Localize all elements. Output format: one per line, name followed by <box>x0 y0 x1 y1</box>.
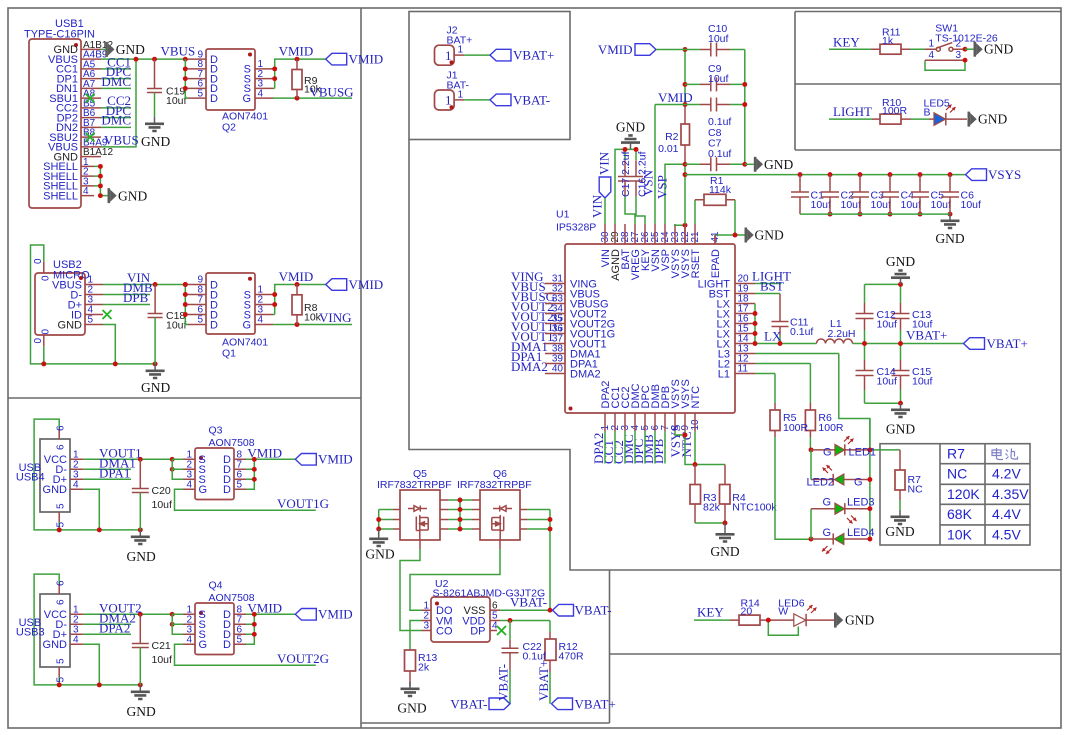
svg-text:VOUT2G: VOUT2G <box>277 651 329 666</box>
svg-text:1: 1 <box>928 39 934 50</box>
svg-text:0: 0 <box>33 258 44 264</box>
svg-text:5: 5 <box>237 480 243 491</box>
svg-text:VMID: VMID <box>318 452 353 467</box>
svg-text:10uf: 10uf <box>871 199 892 211</box>
svg-text:VOUT1G: VOUT1G <box>277 496 329 511</box>
svg-text:10uf: 10uf <box>811 199 832 211</box>
svg-text:G: G <box>199 639 208 651</box>
svg-text:6: 6 <box>56 425 67 431</box>
svg-text:USB4: USB4 <box>16 472 45 484</box>
svg-text:IRF7832TRPBF: IRF7832TRPBF <box>377 479 452 491</box>
svg-text:GND: GND <box>886 254 915 269</box>
svg-text:GND: GND <box>935 231 964 246</box>
svg-text:GND: GND <box>616 120 645 135</box>
svg-text:NC: NC <box>908 484 924 496</box>
svg-text:4.5V: 4.5V <box>992 527 1021 543</box>
svg-text:120K: 120K <box>947 486 980 502</box>
svg-text:68K: 68K <box>947 506 973 522</box>
svg-text:5: 5 <box>56 677 67 683</box>
svg-text:VMID: VMID <box>598 42 633 57</box>
svg-text:10uf: 10uf <box>841 199 862 211</box>
svg-text:4: 4 <box>186 635 192 646</box>
svg-text:DMC: DMC <box>101 74 131 89</box>
svg-text:W: W <box>778 606 788 618</box>
svg-text:Q3: Q3 <box>209 425 223 437</box>
svg-text:BAT-: BAT- <box>447 79 470 91</box>
svg-text:10uf: 10uf <box>708 33 729 45</box>
svg-text:VBUSG: VBUSG <box>310 85 354 100</box>
svg-text:USB3: USB3 <box>16 627 45 639</box>
svg-text:LIGHT: LIGHT <box>833 104 872 119</box>
svg-text:D: D <box>210 93 218 105</box>
svg-text:5: 5 <box>197 315 203 326</box>
svg-text:G: G <box>854 476 863 488</box>
svg-text:GND: GND <box>710 544 739 559</box>
svg-text:4: 4 <box>73 635 79 646</box>
svg-text:DPB: DPB <box>123 290 149 305</box>
svg-text:1k: 1k <box>882 35 894 47</box>
svg-text:10uf: 10uf <box>166 95 187 107</box>
svg-text:4: 4 <box>258 315 264 326</box>
svg-text:KEY: KEY <box>697 605 724 620</box>
svg-text:VBAT-: VBAT- <box>496 664 511 701</box>
svg-text:114k: 114k <box>709 184 732 196</box>
svg-text:4: 4 <box>83 186 89 197</box>
svg-text:G: G <box>823 527 832 539</box>
svg-text:2k: 2k <box>418 662 430 674</box>
svg-text:4.35V: 4.35V <box>992 486 1029 502</box>
svg-text:NC: NC <box>947 466 967 482</box>
svg-text:10uf: 10uf <box>912 376 933 388</box>
svg-text:IP5328P: IP5328P <box>556 222 596 234</box>
svg-text:VBAT+: VBAT+ <box>575 696 616 711</box>
svg-text:GND: GND <box>397 701 426 716</box>
svg-text:100R: 100R <box>882 105 908 117</box>
svg-text:GND: GND <box>764 157 793 172</box>
svg-text:2: 2 <box>956 39 962 50</box>
svg-text:GND: GND <box>141 380 170 395</box>
svg-text:470R: 470R <box>559 651 585 663</box>
svg-text:GND: GND <box>118 188 147 203</box>
svg-text:C20: C20 <box>152 485 171 497</box>
svg-text:NTC100k: NTC100k <box>732 502 777 514</box>
svg-text:2.2uH: 2.2uH <box>828 328 856 340</box>
svg-text:VSYS: VSYS <box>988 167 1021 182</box>
svg-text:5: 5 <box>197 88 203 99</box>
svg-text:10uf: 10uf <box>877 376 898 388</box>
svg-text:4: 4 <box>186 480 192 491</box>
svg-text:D: D <box>210 319 218 331</box>
svg-text:EPAD: EPAD <box>710 249 722 278</box>
svg-text:BAT+: BAT+ <box>447 35 473 47</box>
svg-text:6: 6 <box>56 444 67 450</box>
svg-text:D: D <box>223 639 231 651</box>
svg-text:0.1uf: 0.1uf <box>523 651 546 663</box>
svg-text:C17 2.2uf: C17 2.2uf <box>620 151 632 197</box>
svg-text:U1: U1 <box>556 209 570 221</box>
svg-text:10uf: 10uf <box>901 199 922 211</box>
svg-text:0.1uf: 0.1uf <box>790 326 813 338</box>
svg-text:GND: GND <box>43 484 68 496</box>
svg-text:D: D <box>223 484 231 496</box>
svg-text:R2: R2 <box>665 131 679 143</box>
svg-text:GND: GND <box>885 524 914 539</box>
svg-text:SHELL: SHELL <box>43 190 78 202</box>
svg-text:LED4: LED4 <box>847 527 875 539</box>
svg-text:RSET: RSET <box>690 249 702 279</box>
svg-text:4.4V: 4.4V <box>992 506 1021 522</box>
svg-text:GND: GND <box>978 112 1007 127</box>
svg-text:0: 0 <box>33 338 44 344</box>
svg-text:0: 0 <box>41 329 52 335</box>
svg-text:GND: GND <box>365 547 394 562</box>
svg-text:GND: GND <box>755 228 784 243</box>
svg-text:6: 6 <box>56 599 67 605</box>
svg-text:5: 5 <box>237 635 243 646</box>
svg-text:NTC: NTC <box>690 386 702 409</box>
svg-text:5: 5 <box>56 503 67 509</box>
svg-text:G: G <box>199 484 208 496</box>
svg-text:LED1: LED1 <box>849 447 877 459</box>
svg-text:GND: GND <box>845 613 874 628</box>
svg-text:5: 5 <box>56 658 67 664</box>
svg-text:C21: C21 <box>152 640 171 652</box>
svg-text:TS-1012E-26: TS-1012E-26 <box>935 33 998 45</box>
svg-text:10uf: 10uf <box>152 499 173 511</box>
svg-text:DMA2: DMA2 <box>570 368 601 380</box>
svg-text:Q2: Q2 <box>222 122 236 134</box>
svg-text:3: 3 <box>423 621 429 632</box>
svg-text:VMID: VMID <box>658 90 693 105</box>
svg-text:VING: VING <box>319 310 352 325</box>
svg-text:GND: GND <box>43 639 68 651</box>
svg-text:VBAT-: VBAT- <box>450 696 487 711</box>
svg-text:4: 4 <box>258 88 264 99</box>
svg-text:GND: GND <box>127 704 156 719</box>
svg-text:10uf: 10uf <box>931 199 952 211</box>
svg-text:B: B <box>924 107 931 119</box>
svg-text:10uf: 10uf <box>708 73 729 85</box>
svg-text:1: 1 <box>445 48 452 63</box>
svg-text:VIN: VIN <box>597 151 612 175</box>
svg-text:LED2: LED2 <box>807 476 835 488</box>
svg-text:GND: GND <box>127 549 156 564</box>
svg-text:G: G <box>823 497 832 509</box>
svg-text:VBAT+: VBAT+ <box>513 48 554 63</box>
svg-text:GND: GND <box>886 422 915 437</box>
svg-text:VMID: VMID <box>318 607 353 622</box>
svg-text:VMID: VMID <box>349 277 384 292</box>
svg-text:DP: DP <box>470 626 485 638</box>
svg-text:Q4: Q4 <box>209 580 223 592</box>
svg-text:0: 0 <box>41 275 52 281</box>
svg-text:20: 20 <box>741 606 753 618</box>
svg-text:VBAT+: VBAT+ <box>536 660 551 701</box>
svg-text:DMA2: DMA2 <box>511 359 548 374</box>
svg-text:10uf: 10uf <box>877 319 898 331</box>
svg-text:G: G <box>242 93 251 105</box>
svg-text:VMID: VMID <box>279 44 314 59</box>
svg-text:100R: 100R <box>818 422 844 434</box>
svg-text:BST: BST <box>760 279 784 294</box>
svg-text:VBUS: VBUS <box>161 44 196 59</box>
svg-text:0.1uf: 0.1uf <box>708 116 731 128</box>
svg-text:TYPE-C16PIN: TYPE-C16PIN <box>24 29 95 41</box>
svg-text:10uf: 10uf <box>912 319 933 331</box>
svg-text:VBAT+: VBAT+ <box>987 336 1028 351</box>
svg-text:10uf: 10uf <box>961 199 982 211</box>
svg-text:L1: L1 <box>718 368 730 380</box>
svg-text:G: G <box>823 447 832 459</box>
svg-text:4: 4 <box>928 50 934 61</box>
svg-text:4.2V: 4.2V <box>992 466 1021 482</box>
svg-text:VBAT-: VBAT- <box>575 603 612 618</box>
svg-text:G: G <box>242 319 251 331</box>
svg-text:10K: 10K <box>947 527 973 543</box>
svg-text:DMC: DMC <box>101 113 131 128</box>
svg-text:LED3: LED3 <box>847 497 875 509</box>
svg-text:4: 4 <box>73 480 79 491</box>
svg-text:DPA2: DPA2 <box>99 621 130 636</box>
svg-text:VIN: VIN <box>590 194 605 218</box>
svg-text:VBUS: VBUS <box>104 132 139 147</box>
svg-text:82k: 82k <box>703 502 721 514</box>
svg-text:3: 3 <box>956 50 962 61</box>
svg-text:CO: CO <box>436 626 453 638</box>
svg-text:KEY: KEY <box>833 34 860 49</box>
svg-text:GND: GND <box>141 134 170 149</box>
svg-text:VSN: VSN <box>641 169 656 196</box>
svg-text:VMID: VMID <box>247 600 282 615</box>
svg-text:0.1uf: 0.1uf <box>708 148 731 160</box>
svg-text:5: 5 <box>56 522 67 528</box>
svg-text:100R: 100R <box>783 422 809 434</box>
svg-text:VMID: VMID <box>349 52 384 67</box>
svg-text:1: 1 <box>445 93 452 108</box>
svg-text:VBAT-: VBAT- <box>510 595 547 610</box>
svg-text:0.01: 0.01 <box>658 143 679 155</box>
svg-text:VSP: VSP <box>655 175 670 199</box>
svg-text:DPA1: DPA1 <box>99 466 130 481</box>
svg-text:R7: R7 <box>947 446 965 462</box>
svg-text:LX: LX <box>764 329 782 344</box>
svg-text:IRF7832TRPBF: IRF7832TRPBF <box>457 479 532 491</box>
svg-text:10uf: 10uf <box>152 654 173 666</box>
svg-text:VBAT-: VBAT- <box>513 92 550 107</box>
svg-text:10uf: 10uf <box>166 320 187 332</box>
svg-text:GND: GND <box>58 319 83 331</box>
svg-text:DPB: DPB <box>651 438 666 464</box>
svg-text:5: 5 <box>88 315 94 326</box>
svg-text:VMID: VMID <box>247 445 282 460</box>
svg-text:VMID: VMID <box>279 269 314 284</box>
svg-text:6: 6 <box>56 580 67 586</box>
svg-text:Q1: Q1 <box>222 348 236 360</box>
